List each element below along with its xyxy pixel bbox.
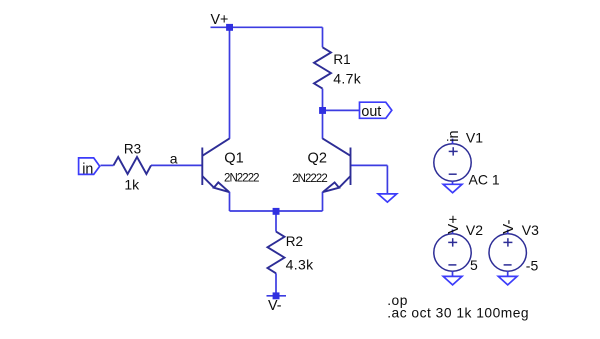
voltage source V3 [489, 230, 526, 277]
svg-text:V+: V+ [211, 12, 229, 28]
wire out stub [323, 109, 360, 111]
svg-text:V3: V3 [522, 222, 539, 238]
svg-text:a: a [170, 150, 178, 166]
wire in port to R3 [101, 164, 114, 166]
wire R1 top lead [322, 27, 324, 47]
junction at V- [273, 292, 280, 299]
wire Q1 collector riser [229, 27, 231, 139]
svg-text:R1: R1 [333, 52, 350, 67]
wire Q2 base to ground [386, 165, 388, 194]
resistor R2 [268, 232, 285, 274]
svg-text:5: 5 [470, 257, 478, 273]
wire R1 bottom lead [322, 89, 324, 111]
wire R3 to Q1 base [151, 164, 202, 166]
voltage source V1 [434, 139, 471, 185]
junction at emitter rail [273, 208, 280, 215]
svg-text:out: out [361, 104, 381, 120]
wire Q2 collector riser [322, 110, 324, 138]
ground at V2 [443, 276, 462, 285]
svg-text:R2: R2 [286, 234, 303, 249]
svg-text:Q1: Q1 [224, 150, 243, 166]
svg-text:-5: -5 [526, 257, 539, 273]
ground at V1 [443, 184, 462, 192]
svg-text:2N2222: 2N2222 [292, 173, 327, 185]
transistor Q2 [323, 138, 351, 192]
svg-text:2N2222: 2N2222 [224, 173, 259, 185]
junction at V+ [226, 24, 233, 31]
wire Q2 base horizontal [351, 164, 388, 166]
wire V+ rail [211, 26, 323, 28]
svg-text:in: in [446, 130, 462, 141]
svg-text:4.7k: 4.7k [333, 71, 362, 87]
svg-text:Q2: Q2 [308, 150, 327, 166]
svg-text:AC 1: AC 1 [469, 171, 500, 187]
wire Q2 emitter drop [322, 192, 324, 211]
svg-text:.ac oct 30 1k 100meg: .ac oct 30 1k 100meg [387, 306, 529, 321]
svg-text:in: in [82, 161, 93, 177]
svg-text:V2: V2 [466, 222, 483, 238]
wire R2 bottom lead [275, 273, 277, 296]
wire emitter rail [230, 210, 323, 212]
junction at out [319, 107, 326, 114]
svg-text:V1: V1 [466, 130, 483, 146]
voltage source V2 [434, 230, 471, 277]
svg-text:V-: V- [500, 220, 517, 234]
port out [360, 102, 392, 120]
wire R2 top lead [275, 211, 277, 232]
svg-text:1k: 1k [124, 177, 140, 193]
wire Q1 emitter drop [229, 192, 231, 211]
svg-text:4.3k: 4.3k [286, 256, 315, 272]
wire V- flag bar [267, 295, 287, 297]
resistor R1 [314, 47, 331, 88]
svg-text:V-: V- [268, 298, 282, 314]
port in [79, 158, 100, 177]
ground at V3 [498, 276, 517, 285]
resistor R3 [114, 157, 152, 174]
ground at Q2 base [378, 194, 397, 202]
svg-text:R3: R3 [124, 142, 141, 157]
transistor Q1 [202, 138, 229, 192]
svg-text:V+: V+ [445, 215, 462, 234]
